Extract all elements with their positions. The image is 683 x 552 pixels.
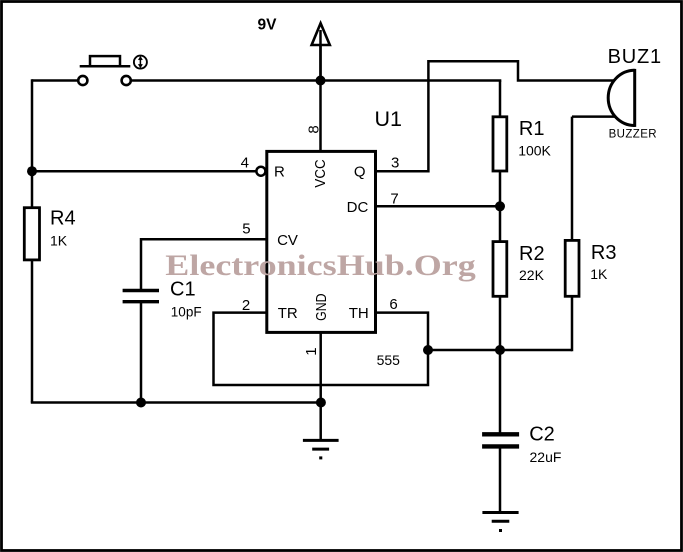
svg-text:Q: Q xyxy=(354,164,366,181)
svg-text:3: 3 xyxy=(391,154,399,171)
svg-text:VCC: VCC xyxy=(312,159,329,187)
svg-text:2: 2 xyxy=(242,297,250,314)
svg-text:BUZZER: BUZZER xyxy=(609,129,657,141)
svg-text:R1: R1 xyxy=(519,118,545,140)
svg-text:22K: 22K xyxy=(519,267,545,283)
svg-text:10pF: 10pF xyxy=(171,304,202,319)
svg-text:GND: GND xyxy=(313,293,330,321)
svg-text:1K: 1K xyxy=(590,266,608,282)
svg-text:4: 4 xyxy=(241,154,249,171)
svg-text:BUZ1: BUZ1 xyxy=(608,46,662,68)
svg-text:5: 5 xyxy=(242,221,250,238)
svg-text:22uF: 22uF xyxy=(530,449,562,465)
svg-text:1: 1 xyxy=(303,347,320,355)
svg-text:C2: C2 xyxy=(529,424,555,446)
svg-text:6: 6 xyxy=(389,296,397,313)
svg-text:R2: R2 xyxy=(519,243,545,265)
svg-text:U1: U1 xyxy=(375,107,402,131)
svg-text:555: 555 xyxy=(377,352,401,368)
svg-text:R: R xyxy=(274,164,285,181)
svg-text:ElectronicsHub.Org: ElectronicsHub.Org xyxy=(165,249,476,282)
svg-text:TH: TH xyxy=(349,305,369,322)
svg-text:R4: R4 xyxy=(50,208,76,230)
svg-text:1K: 1K xyxy=(50,232,68,248)
svg-text:100K: 100K xyxy=(518,142,551,158)
svg-text:R3: R3 xyxy=(591,242,617,264)
svg-text:9V: 9V xyxy=(258,17,278,34)
svg-text:C1: C1 xyxy=(170,278,196,300)
svg-text:8: 8 xyxy=(305,125,322,133)
svg-text:7: 7 xyxy=(390,190,398,207)
svg-text:DC: DC xyxy=(347,199,369,216)
svg-text:TR: TR xyxy=(278,305,298,322)
svg-text:CV: CV xyxy=(277,232,298,249)
